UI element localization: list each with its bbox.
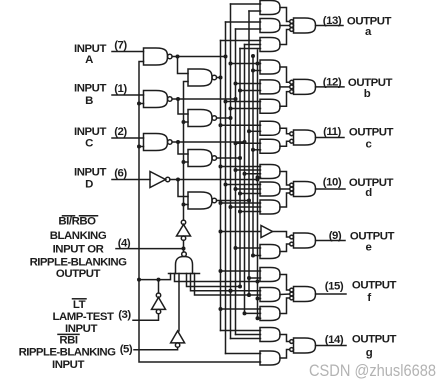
node OUTPUT d label: [349, 177, 394, 199]
wire stub d1 in2 input: [236, 169, 261, 171]
and gate b1: [260, 60, 280, 74]
svg-text:LAMP-TEST: LAMP-TEST: [52, 311, 114, 323]
wire b3 to output gate: [280, 92, 290, 107]
node OUTPUT e label: [350, 231, 395, 254]
node INPUT C label: [74, 126, 106, 150]
bubble output-g input: [290, 348, 294, 352]
junction C joins bus c6: [243, 140, 247, 144]
junction f3 in1 tap: [219, 307, 223, 311]
svg-text:OUTPUT: OUTPUT: [350, 231, 395, 243]
bubble output-g input: [290, 340, 294, 344]
nand gate output-b: [294, 79, 316, 94]
wire B-output: [172, 98, 235, 100]
wire stub f2 in1 input: [231, 290, 261, 292]
wire bus column c6: [244, 45, 246, 314]
wire stub f3 in1 input: [221, 308, 261, 310]
wire stub f3 in3 input: [258, 317, 261, 319]
pin (5) label: [120, 344, 133, 356]
wire output g: [316, 345, 347, 347]
svg-text:INPUT OR: INPUT OR: [53, 244, 104, 256]
junction fan1-c9: [256, 280, 260, 284]
wire stub f1 top input: [221, 270, 261, 272]
svg-text:(12): (12): [323, 77, 342, 89]
junction B joins bus c4: [234, 97, 238, 101]
wire D-output: [170, 179, 258, 181]
bubble output-d input: [290, 191, 294, 195]
svg-text:BI/RBO: BI/RBO: [58, 216, 96, 228]
wire stub RBO line to D2: [184, 204, 189, 206]
wire stub d1 in3 input: [245, 173, 261, 175]
junction d1 in4 tap: [256, 175, 260, 179]
junction b1 bottom tap: [251, 69, 255, 73]
svg-text:B: B: [85, 95, 93, 107]
svg-text:INPUT: INPUT: [74, 126, 106, 138]
junction blanking-C: [137, 145, 141, 149]
junction d3 in3 tap: [238, 210, 242, 214]
wire blanking gate input left (to LT/blanking line): [139, 274, 171, 280]
junction b2 bottom tap: [238, 89, 242, 93]
wire input D: [112, 179, 150, 181]
wire bus column c5: [239, 49, 241, 287]
and gate d1: [260, 165, 280, 179]
nand gate input-C buffer: [144, 134, 173, 151]
junction f3 in2 tap: [243, 311, 247, 315]
junction fan3-c3: [229, 289, 233, 293]
pin (11) label: [323, 126, 341, 138]
pin (14) label: [325, 334, 344, 346]
nand gate D2 (second level): [188, 192, 217, 209]
and gate f1: [260, 268, 280, 282]
pin (10) label: [323, 177, 342, 189]
wire b1 to output gate: [280, 67, 290, 82]
node BI/RBO label: [30, 216, 127, 280]
and gate a3: [260, 38, 280, 52]
junction RBO-B2: [182, 120, 186, 124]
wire pin4: [116, 248, 181, 250]
pin (1) label: [114, 83, 127, 95]
bubble output-c input: [290, 139, 294, 143]
wire stub blanking to C gate: [139, 146, 144, 148]
junction fan4-c7: [247, 293, 251, 297]
wire d1 to output gate: [280, 172, 290, 186]
junction c2 top tap: [234, 141, 238, 145]
bubble output-d input: [290, 183, 294, 187]
junction pin4 node: [182, 247, 186, 251]
wire stub f1 bottom input: [249, 277, 261, 279]
junction blanking-B: [137, 102, 141, 106]
svg-text:RBI: RBI: [59, 334, 78, 346]
junction c1 bottom tap: [247, 129, 251, 133]
wire input B: [112, 94, 144, 96]
pin (13) label: [323, 15, 342, 27]
wire output c: [316, 137, 345, 139]
junction c1 top tap: [219, 123, 223, 127]
nand gate B2 (second level): [188, 110, 217, 127]
wire f3 to output gate: [280, 298, 290, 314]
wire B2 output: [217, 117, 231, 119]
svg-text:CSDN @zhusl6688: CSDN @zhusl6688: [309, 362, 436, 380]
pin (3) label: [118, 309, 131, 321]
wire output f: [316, 293, 347, 295]
junction B-output branch: [176, 97, 180, 101]
nand gate A2 (second level): [188, 69, 217, 86]
and gate g2: [260, 351, 280, 365]
wire bus c2 top bend: [226, 21, 261, 23]
wire stub blanking to B gate: [139, 103, 144, 105]
wire D2 top input: [178, 180, 188, 197]
wire d2 to output gate: [280, 188, 290, 190]
svg-text:C: C: [85, 138, 93, 150]
bubble output-b input: [290, 85, 294, 89]
wire fan input 1: [175, 274, 258, 282]
wire e2 to output gate: [280, 244, 290, 252]
junction C-output branch: [176, 140, 180, 144]
svg-text:OUTPUT: OUTPUT: [349, 127, 394, 139]
node INPUT D label: [74, 166, 106, 190]
bubble output-f input: [290, 288, 294, 292]
wire g2 to output gate: [280, 350, 290, 359]
wire output b: [316, 86, 345, 88]
wire stub c2 top input: [236, 142, 261, 144]
wire c1 to output gate: [280, 128, 290, 134]
junction RBO-D2: [182, 203, 186, 207]
wire stub e1 top input: [236, 247, 261, 249]
junction d2 in2 tap: [234, 187, 238, 191]
wire input C: [112, 137, 144, 139]
wire C2 top input: [178, 142, 188, 154]
node OUTPUT c label: [349, 127, 394, 151]
wire stub d1 in4 input: [258, 176, 261, 178]
bubble output-c input: [290, 132, 294, 136]
bubble output-b input: [290, 90, 294, 94]
wire C-output: [172, 141, 244, 143]
wire bus c3 top bend: [231, 3, 261, 5]
svg-text:e: e: [366, 242, 372, 254]
wire stub b1 bottom input: [253, 70, 261, 72]
wire bus c7 top bend: [249, 10, 261, 12]
svg-text:b: b: [364, 88, 371, 100]
pin (7) label: [114, 39, 127, 51]
svg-text:BLANKING: BLANKING: [50, 230, 107, 242]
junction B2 joins bus c3: [229, 116, 233, 120]
wire bus column c3: [230, 4, 232, 339]
junction LT-blanking line: [157, 278, 161, 282]
junction d3 in1 tap: [219, 201, 223, 205]
junction d2 in3 tap: [238, 192, 242, 196]
bubble output-f input: [290, 296, 294, 300]
wire bus column c4: [235, 29, 237, 335]
wire input A: [112, 51, 144, 53]
junction D2 joins bus c7: [247, 199, 251, 203]
wire LT input: [133, 314, 159, 321]
junction D-output branch: [176, 178, 180, 182]
svg-text:D: D: [85, 179, 93, 191]
svg-text:(6): (6): [114, 167, 127, 179]
wire bus c4 top bend: [236, 28, 261, 30]
nand gate output-e: [294, 233, 316, 248]
and gate a1: [260, 1, 280, 15]
svg-text:c: c: [366, 139, 372, 151]
and gate e2: [260, 245, 280, 259]
svg-text:(10): (10): [323, 177, 342, 189]
nand gate output-a: [294, 18, 316, 33]
junction f3 in3 tap: [256, 316, 260, 320]
svg-text:A: A: [85, 54, 93, 66]
junction e buffer in tap: [219, 230, 223, 234]
junction f2 in1 tap: [229, 289, 233, 293]
wire bus c3 bottom bend: [231, 338, 261, 340]
junction c2 bottom tap: [251, 148, 255, 152]
junction c9 top: [256, 62, 260, 66]
pin (4) label: [118, 237, 131, 249]
wire blanking bus left vertical: [139, 62, 261, 363]
inverter LT (vertical): [152, 293, 166, 314]
wire output a: [316, 25, 344, 27]
svg-text:(15): (15): [325, 280, 344, 292]
junction b2 top tap: [234, 82, 238, 86]
svg-text:OUTPUT: OUTPUT: [352, 280, 397, 292]
pin (12) label: [323, 77, 342, 89]
wire bus c6 top bend: [245, 44, 261, 46]
inverter input-D: [150, 172, 170, 188]
svg-text:LT: LT: [73, 299, 86, 311]
svg-text:(11): (11): [323, 126, 341, 138]
bubble output-a input: [290, 20, 294, 24]
wire g1 to output gate: [280, 335, 290, 342]
svg-text:OUTPUT: OUTPUT: [352, 333, 397, 345]
bubble output-a input: [290, 28, 294, 32]
svg-text:(5): (5): [120, 344, 133, 356]
junction d2 in1 tap: [224, 183, 228, 187]
junction RBO-C2: [182, 160, 186, 164]
junction b3 bottom tap: [229, 107, 233, 111]
pin (15) label: [325, 280, 344, 292]
wire fan input 3: [191, 274, 231, 291]
wire fan input 4: [195, 274, 250, 296]
bubble output-a input: [290, 24, 294, 28]
wire D2 output: [217, 200, 249, 202]
and gate a2: [260, 19, 280, 33]
junction d1 in1 tap: [219, 165, 223, 169]
wire stub b3 top input: [226, 101, 261, 103]
wire fan input 2: [187, 274, 241, 287]
wire a2 to output gate: [280, 25, 290, 27]
node OUTPUT b label: [348, 77, 393, 100]
nand gate input-B buffer: [144, 91, 173, 108]
svg-text:INPUT: INPUT: [65, 323, 97, 335]
wire LT output: [158, 280, 160, 293]
wire bus c5 top bend: [240, 48, 261, 50]
wire output e: [316, 240, 346, 242]
nor gate blanking (vertical): [169, 252, 200, 274]
node OUTPUT g label: [352, 333, 397, 358]
svg-text:RIPPLE-BLANKING: RIPPLE-BLANKING: [30, 256, 127, 268]
wire A2 top input: [178, 57, 189, 74]
wire bus c1 top bend: [221, 40, 261, 42]
pin (6) label: [114, 167, 127, 179]
and gate c2: [260, 139, 280, 153]
bubble output-b input: [290, 80, 294, 84]
wire stub d3 in2 input: [231, 206, 261, 208]
wire RBI-inverter output riser: [178, 274, 180, 331]
wire stub e buffer in input: [221, 231, 261, 233]
svg-text:INPUT: INPUT: [74, 83, 106, 95]
wire stub RBO line to C2: [184, 161, 189, 163]
wire stub d1 in1 input: [221, 166, 261, 168]
wire d3 to output gate: [280, 193, 290, 207]
wire stub c1 top input: [221, 124, 261, 126]
pin (2) label: [114, 126, 127, 138]
junction d3 in2 tap: [229, 205, 233, 209]
wire A-output: [172, 56, 225, 58]
node OUTPUT f label: [352, 280, 397, 304]
watermark: [309, 362, 436, 380]
wire stub d3 in3 input: [240, 211, 261, 213]
svg-text:(2): (2): [114, 126, 127, 138]
svg-text:g: g: [366, 347, 373, 359]
wire a1 to output gate: [280, 8, 290, 22]
wire f1 to output gate: [280, 275, 290, 291]
buffer e-input (triangle): [261, 226, 273, 238]
wire stub d3 in1 input: [221, 202, 261, 204]
wire bus c1 bottom bend: [221, 330, 261, 332]
wire b2 to output gate: [280, 86, 290, 88]
wire stub RBO line to B2: [184, 121, 189, 123]
wire bus column c7: [248, 11, 250, 295]
and gate f2: [260, 288, 280, 302]
wire C2 output: [217, 157, 240, 159]
svg-text:INPUT: INPUT: [52, 359, 84, 371]
wire stub b3 bottom input: [231, 108, 261, 110]
wire A2 output: [217, 77, 221, 79]
junction f1 top tap: [219, 269, 223, 273]
svg-text:(13): (13): [323, 15, 342, 27]
wire stub b2 bottom input: [240, 90, 261, 92]
wire e1 to output gate: [273, 232, 290, 238]
node INPUT A label: [74, 43, 106, 66]
junction A2 joins bus c1: [219, 76, 223, 80]
and gate d2: [260, 182, 280, 196]
svg-text:(3): (3): [118, 309, 131, 321]
junction e1 bottom tap: [251, 254, 255, 258]
and gate g1: [260, 328, 280, 342]
and gate d3: [260, 200, 280, 214]
wire stub d2 in3 input: [240, 193, 261, 195]
junction c8 top: [251, 54, 255, 58]
wire stub b2 top input: [236, 83, 261, 85]
junction blanking-LT line: [137, 278, 141, 282]
wire bus column c1: [220, 41, 222, 331]
wire stub c1 bottom input: [249, 130, 261, 132]
wire stub d2 in2 input: [236, 188, 261, 190]
wire bus column c2: [225, 22, 227, 354]
junction d1 in3 tap: [243, 172, 247, 176]
wire bus column c9: [257, 50, 259, 318]
svg-text:(14): (14): [325, 334, 344, 346]
wire RBO-inverter output vertical: [184, 82, 189, 221]
nand gate output-c: [294, 130, 316, 145]
and gate c1: [260, 121, 280, 135]
junction e1 top tap: [234, 246, 238, 250]
wire bus column c8: [252, 56, 254, 256]
junction A joins bus c2: [224, 55, 228, 59]
wire bus c2 bottom bend: [226, 353, 261, 355]
wire stub f2 in2 input: [249, 294, 261, 296]
inverter RBI (vertical): [171, 331, 185, 347]
svg-text:OUTPUT: OUTPUT: [56, 268, 101, 280]
svg-text:RIPPLE-BLANKING: RIPPLE-BLANKING: [19, 346, 116, 358]
and gate f3: [260, 307, 280, 321]
nand gate C2 (second level): [188, 150, 217, 167]
wire B2 top input: [178, 99, 188, 114]
bubble output-f input: [290, 292, 294, 296]
wire f2 to output gate: [280, 293, 290, 296]
wire c2 to output gate: [280, 141, 290, 146]
junction f2 in3 tap: [256, 297, 260, 301]
junction C2 joins bus c5: [238, 156, 242, 160]
junction f2 in2 tap: [247, 293, 251, 297]
wire bus c4 bottom bend: [236, 334, 261, 336]
wire RBI input: [134, 347, 178, 350]
inverter RBO (vertical): [177, 220, 191, 240]
wire a3 to output gate: [280, 30, 290, 45]
pin (9) label: [329, 230, 342, 242]
svg-text:d: d: [365, 187, 372, 199]
wire output d: [316, 188, 346, 190]
nand gate output-d: [294, 182, 316, 197]
wire stub b1 top input: [231, 63, 261, 65]
wire RBO inverter input: [183, 240, 185, 252]
and gate b3: [260, 99, 280, 113]
junction b1 top tap: [229, 62, 233, 66]
junction d1 in2 tap: [234, 168, 238, 172]
wire stub c2 bottom input: [253, 149, 261, 151]
wire stub f3 in2 input: [245, 312, 261, 314]
svg-text:(7): (7): [114, 39, 127, 51]
junction f1 bottom tap: [247, 276, 251, 280]
node RBI label: [19, 334, 116, 371]
nand gate input-A buffer: [144, 48, 173, 65]
wire stub d2 in1 input: [226, 184, 261, 186]
and gate b2: [260, 80, 280, 94]
svg-text:(1): (1): [114, 83, 127, 95]
wire stub f2 in3 input: [258, 298, 261, 300]
junction D joins bus c9: [256, 178, 260, 182]
svg-text:(9): (9): [329, 230, 342, 242]
junction b3 top tap: [224, 100, 228, 104]
node OUTPUT a label: [347, 16, 392, 39]
svg-text:INPUT: INPUT: [74, 166, 106, 178]
nand gate output-g: [294, 338, 316, 353]
nand gate output-f: [294, 287, 316, 302]
junction A-output branch: [176, 55, 180, 59]
bubble output-e input: [290, 242, 294, 246]
svg-text:(4): (4): [118, 237, 131, 249]
wire stub e1 bottom input: [253, 255, 261, 257]
junction fan2-c5: [238, 285, 242, 289]
node LT label: [52, 299, 114, 335]
bubble output-d input: [290, 187, 294, 191]
node INPUT B label: [74, 83, 106, 107]
bubble output-e input: [290, 235, 294, 239]
